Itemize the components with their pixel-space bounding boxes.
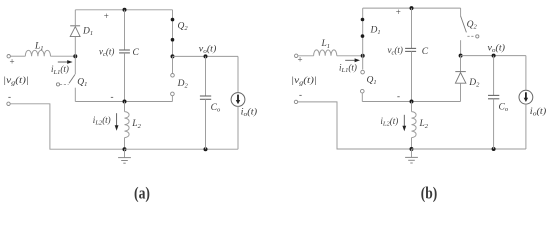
wire: source bottom return	[298, 102, 412, 149]
svg-text:|vg(t)|: |vg(t)|	[3, 75, 29, 87]
inductor L2	[124, 102, 126, 112]
svg-text:|vg(t)|: |vg(t)|	[291, 75, 317, 87]
node L2 top junction dot	[410, 100, 414, 104]
wire: top rail	[363, 7, 461, 9]
node top-rail/C junction dot	[410, 6, 414, 10]
current arrow iL2	[403, 115, 405, 127]
switch Q1 (off: open contact)	[362, 56, 364, 70]
svg-text:C: C	[133, 48, 140, 58]
svg-text:(a): (a)	[134, 183, 150, 202]
ground node junction dot	[410, 147, 414, 151]
svg-text:+: +	[10, 57, 15, 67]
inductor L1	[25, 50, 50, 56]
svg-text:-: -	[8, 92, 11, 102]
current arrow iL1	[345, 59, 355, 61]
wire: source bottom return	[10, 104, 124, 149]
wire: L1 to node A	[51, 55, 76, 57]
wire: bottom mid rail (Q1 to D2)	[362, 101, 460, 103]
ground node junction dot	[123, 147, 127, 151]
wire: bottom rail	[412, 148, 526, 150]
svg-text:io(t): io(t)	[241, 107, 258, 119]
inductor L1	[314, 50, 337, 56]
node vo junction dot (Q2 bottom)	[171, 54, 175, 58]
input terminal - (bottom-left circle)	[294, 100, 297, 103]
node Co top junction dot	[204, 54, 208, 58]
node Co bottom junction dot	[204, 147, 208, 151]
capacitor C	[124, 10, 126, 50]
wire: bottom rail	[125, 148, 239, 150]
current source io	[525, 56, 527, 91]
capacitor Co	[493, 56, 495, 96]
svg-text:+: +	[396, 7, 401, 17]
wire: vo rail	[461, 55, 526, 57]
svg-text:-: -	[111, 92, 114, 102]
switch Q2 (off: blade with gate)	[460, 8, 462, 16]
svg-text:-: -	[299, 89, 302, 99]
capacitor Co	[205, 56, 207, 96]
current arrow iL1	[58, 61, 68, 63]
diode D1	[74, 37, 76, 57]
wire: bottom mid rail (Q1 to D2)	[75, 101, 172, 103]
svg-text:+: +	[104, 11, 109, 21]
diode D2 (off: open contact)	[172, 56, 174, 73]
input terminal + (top-left circle)	[7, 55, 10, 58]
node Co bottom junction dot	[492, 147, 496, 151]
wire: L1 to node A	[337, 55, 363, 57]
switch Q1 (off: blade with gate)	[74, 56, 76, 74]
svg-text:io(t): io(t)	[530, 106, 547, 118]
input terminal - (bottom-left circle)	[7, 102, 10, 105]
diode D2	[460, 56, 462, 72]
node L2 top junction dot	[123, 100, 127, 104]
switch Q2 (closed)	[172, 10, 174, 57]
wire: top rail	[75, 9, 172, 11]
inductor L2	[411, 102, 413, 112]
ground	[124, 149, 126, 157]
current arrow iL2	[116, 113, 118, 126]
svg-text:vo(t): vo(t)	[488, 43, 506, 55]
current source io	[237, 56, 239, 93]
input terminal + (top-left circle)	[295, 54, 298, 57]
wire: vo rail	[173, 55, 239, 57]
svg-text:-: -	[397, 91, 400, 101]
wire: + terminal to L1	[298, 55, 314, 57]
node Co top junction dot	[492, 54, 496, 58]
ground	[411, 149, 413, 157]
node top-rail/C junction dot	[123, 8, 127, 12]
node A junction dot	[361, 54, 365, 58]
node A junction dot	[73, 54, 77, 58]
svg-text:vc(t): vc(t)	[99, 46, 114, 58]
svg-text:vo(t): vo(t)	[199, 44, 217, 56]
capacitor C	[411, 8, 413, 48]
node vo junction dot (Q2 bottom)	[459, 54, 463, 58]
diode D1 (on: closed switch)	[362, 8, 364, 56]
svg-text:vc(t): vc(t)	[388, 45, 403, 57]
svg-text:C: C	[422, 47, 429, 57]
wire: + terminal to L1	[10, 55, 25, 57]
svg-text:(b): (b)	[421, 183, 438, 202]
